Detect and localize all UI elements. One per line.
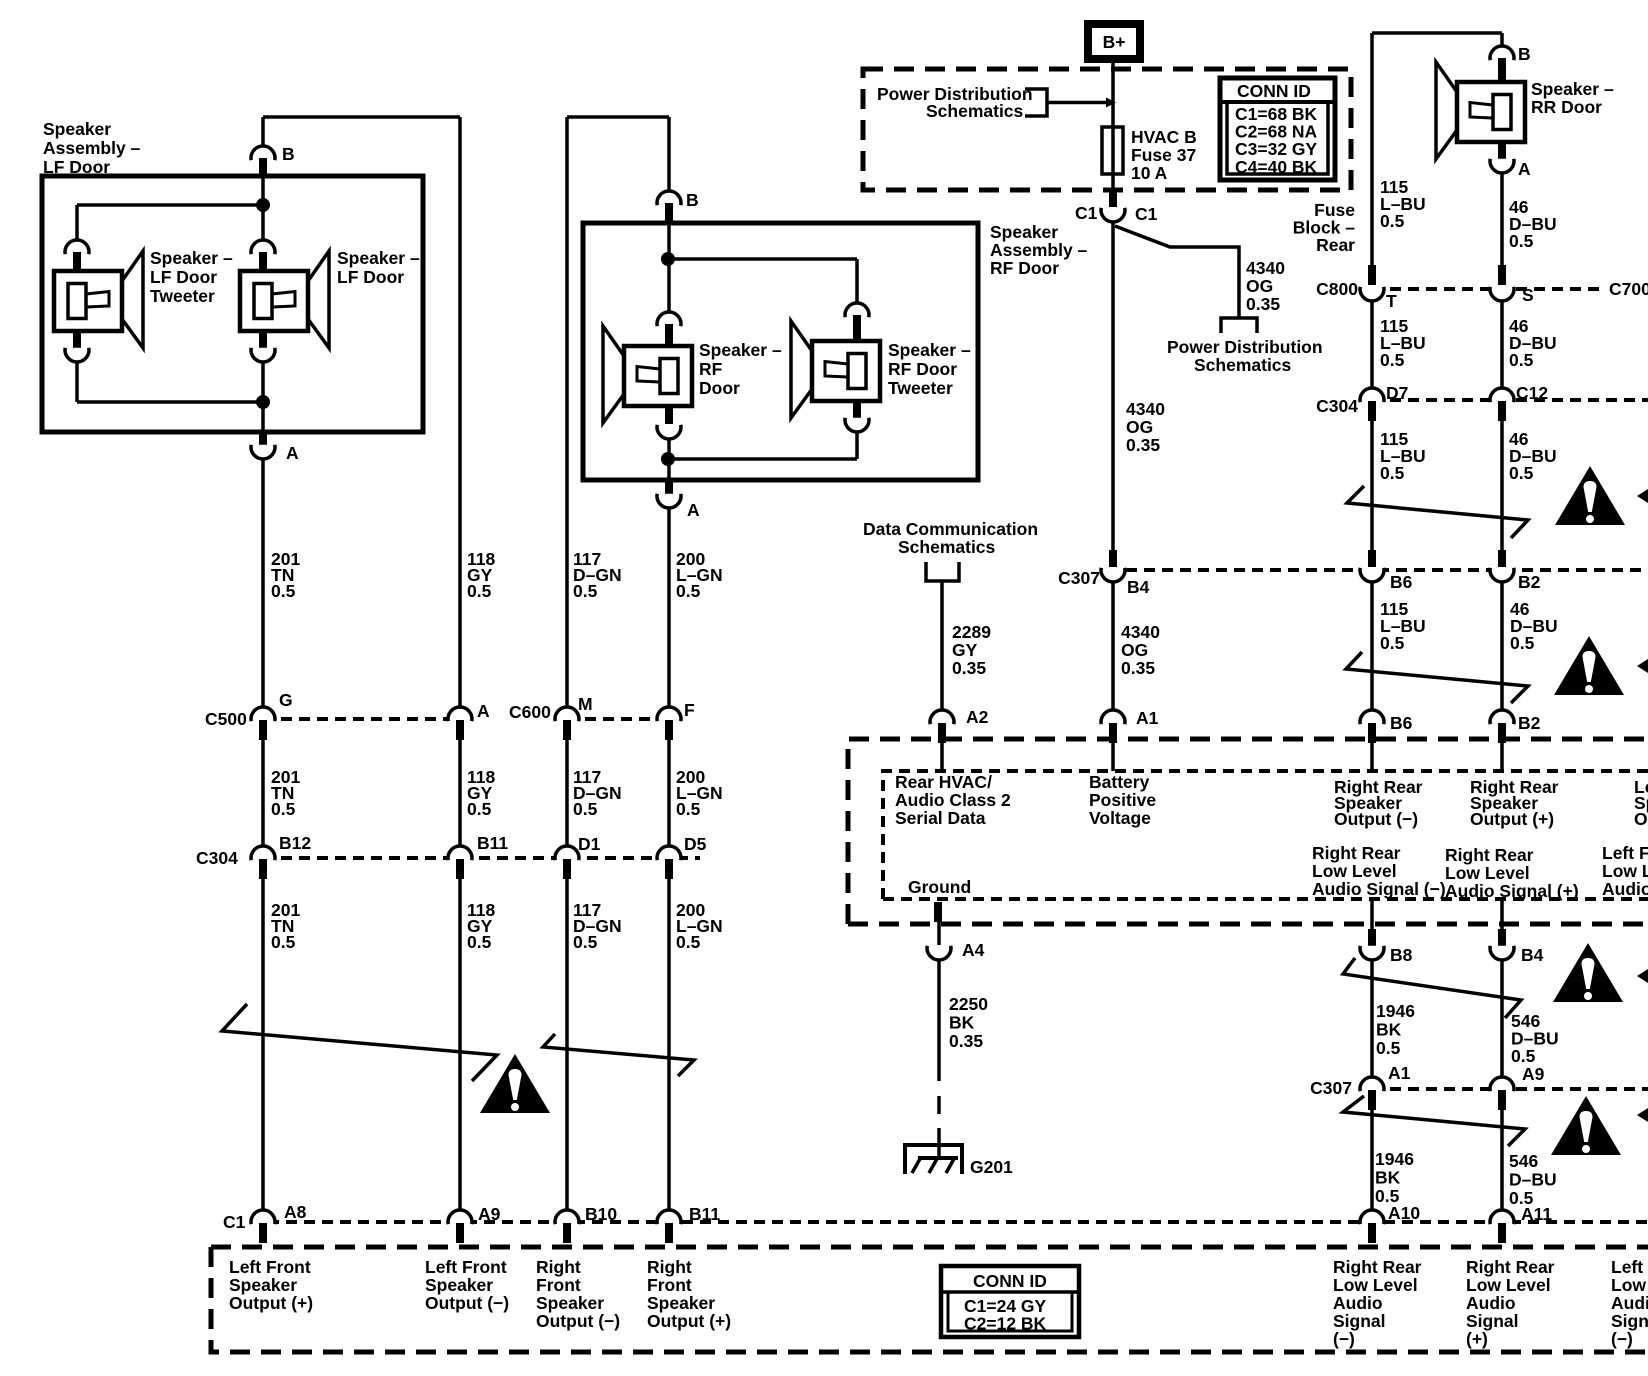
connector C800 pin T: [1360, 287, 1384, 301]
wire 201 TN segment C500 to C304: [261, 740, 265, 845]
svg-text:B6: B6: [1390, 572, 1413, 592]
wire 46 D-BU segment C800 to C304: [1500, 301, 1504, 387]
wire RF junction to A: [667, 459, 671, 480]
svg-text:A: A: [477, 701, 490, 721]
wire RR loop top: [1372, 31, 1502, 35]
svg-text:A9: A9: [478, 1204, 501, 1224]
wire LF loop top: [263, 115, 460, 119]
stub below A1: [1109, 723, 1117, 743]
wire 1946 BK segment B8 to C307: [1370, 960, 1374, 1077]
wire 118 GY segment top to C500: [458, 117, 462, 706]
svg-text:B: B: [282, 144, 295, 164]
ground G201 symbol: [905, 1145, 962, 1174]
stub out of LF tweeter: [73, 332, 81, 351]
svg-text:A1: A1: [1136, 708, 1159, 728]
wire 2289 GY segment to A2: [940, 581, 944, 710]
connector line C304 left: [263, 856, 700, 860]
wire B2 into module: [1500, 743, 1504, 771]
connector line C307 upper: [1126, 568, 1648, 572]
stub above C800 T: [1368, 265, 1376, 285]
wire 2250 BK dashed continuation: [937, 1096, 941, 1114]
twisted pair mark left front pair: [222, 1004, 497, 1081]
stub below C1 B11: [665, 1223, 673, 1243]
stub above A (LF): [259, 432, 267, 446]
svg-text:B11: B11: [477, 833, 508, 853]
wire module to B8: [1370, 899, 1374, 929]
twisted pair mark low level pair (1): [1343, 958, 1521, 1018]
connector A (RR speaker): [1490, 159, 1514, 173]
connector line C307 lower: [1372, 1087, 1648, 1091]
wire 115 L-BU segment C307 to module: [1370, 582, 1374, 710]
stub below A2: [938, 723, 946, 743]
wire branch from LF tweeter bottom: [77, 400, 263, 404]
svg-text:A: A: [687, 500, 700, 520]
wire 546 D-BU segment C307 to A11: [1500, 1110, 1504, 1210]
connector C1 pin A11: [1490, 1210, 1514, 1224]
warning triangle note (4): [1551, 1096, 1621, 1155]
wire RF speaker to lower junction: [667, 439, 671, 459]
svg-text:C1: C1: [1135, 204, 1158, 224]
connector line C500: [263, 717, 460, 721]
svg-text:CONN ID: CONN ID: [973, 1271, 1047, 1291]
twisted pair mark RR pair (1): [1347, 486, 1528, 538]
wire 2250 BK segment: [937, 960, 941, 1081]
wire 201 TN segment A to C500: [261, 459, 265, 706]
footnote arrow (3): [1637, 969, 1648, 983]
connector C600 pin M: [555, 707, 579, 721]
wire to RF B connector: [667, 117, 671, 190]
svg-text:Schematics: Schematics: [1194, 355, 1292, 375]
connector at LF speaker bottom: [251, 348, 275, 362]
svg-text:A: A: [286, 443, 299, 463]
svg-text:Schematics: Schematics: [926, 101, 1024, 121]
wire 4340 OG segment C1 to C307: [1111, 222, 1115, 550]
svg-text:C1: C1: [223, 1212, 246, 1232]
stub below C600 M: [563, 720, 571, 740]
svg-text:C1: C1: [1075, 203, 1098, 223]
footnote arrow (4): [1637, 1108, 1648, 1122]
warning triangle note (3): [1553, 943, 1623, 1002]
stub into LF speaker: [259, 252, 267, 271]
stub above RR A: [1498, 142, 1506, 160]
svg-text:A2: A2: [966, 707, 989, 727]
svg-text:G: G: [279, 690, 293, 710]
svg-text:C304: C304: [196, 848, 238, 868]
connector A (RF assembly): [657, 494, 681, 508]
wire RF tweeter drop: [855, 259, 859, 303]
stub below module B6: [1368, 723, 1376, 743]
stub above C307 B4: [1109, 550, 1117, 567]
wire RF main speaker top: [667, 259, 671, 312]
connector line C800: [1372, 287, 1600, 291]
connector at LF speaker top: [251, 240, 275, 254]
twisted pair mark low level pair (2): [1343, 1096, 1525, 1146]
stub below C1 A8: [259, 1223, 267, 1243]
connector line C600: [567, 717, 669, 721]
svg-text:C500: C500: [205, 709, 247, 729]
stub below C304 D1: [563, 859, 571, 879]
connector B (RR speaker): [1490, 46, 1514, 60]
wire 115 L-BU segment top: [1370, 33, 1374, 265]
svg-text:G201: G201: [970, 1157, 1013, 1177]
connector C307 pin B4: [1101, 568, 1125, 582]
svg-text:A1: A1: [1388, 1063, 1411, 1083]
connector C1 pin A8: [251, 1210, 275, 1224]
svg-text:B4: B4: [1127, 577, 1150, 597]
B+ battery feed box: [1084, 20, 1144, 63]
CONN ID table (fuse block rear): [1220, 78, 1335, 180]
wire 1946 BK segment C307 to A10: [1370, 1110, 1374, 1210]
connector C304 pin D7: [1360, 388, 1384, 402]
stub below C1 A11: [1498, 1223, 1506, 1243]
svg-text:CONN ID: CONN ID: [1237, 81, 1311, 101]
stub below B: [259, 158, 267, 178]
speaker RF door tweeter icon: [791, 321, 880, 418]
connector C800 pin S: [1490, 287, 1514, 301]
wire 115 L-BU segment C304 to C307: [1370, 421, 1374, 550]
connector C1 fuse block: [1101, 208, 1125, 222]
connector C500 pin G: [251, 707, 275, 721]
wire 118 GY segment C304 to C1: [458, 879, 462, 1210]
svg-text:C800: C800: [1316, 279, 1358, 299]
stub below C307 A9: [1498, 1090, 1506, 1110]
footnote arrow (1): [1637, 489, 1648, 503]
svg-text:C1=68 BKC2=68 NAC3=32 GYC4=40: C1=68 BKC2=68 NAC3=32 GYC4=40 BK: [1235, 104, 1318, 177]
stub below RF B: [665, 203, 673, 223]
radio dashed box (bottom): [211, 1247, 1648, 1352]
wire 117 D-GN segment top to C600: [565, 117, 569, 706]
svg-text:A10: A10: [1388, 1203, 1420, 1223]
svg-text:118GY0.5: 118GY0.5: [467, 549, 495, 601]
radio/amplifier inner dashed box: [883, 771, 1648, 899]
svg-text:Schematics: Schematics: [898, 537, 996, 557]
wire to RR speaker B: [1500, 33, 1504, 46]
connector B8 (module low level): [1360, 946, 1384, 960]
wire 2250 BK to ground: [937, 1128, 941, 1158]
svg-text:C12: C12: [1516, 383, 1548, 403]
twisted pair mark right front pair: [543, 1034, 694, 1076]
fuse HVAC B Fuse 37 10A: [1102, 127, 1123, 174]
svg-text:D7: D7: [1386, 383, 1408, 403]
connector B4 (module low level): [1490, 946, 1514, 960]
svg-text:C307: C307: [1310, 1078, 1352, 1098]
speaker LF door tweeter icon: [54, 251, 143, 348]
stub into RF tweeter: [853, 315, 861, 340]
connector A1 (module): [1101, 710, 1125, 724]
svg-text:C304: C304: [1316, 396, 1358, 416]
svg-text:B: B: [686, 190, 699, 210]
stub above C800 S: [1498, 265, 1506, 285]
svg-text:Power Distribution: Power Distribution: [1167, 337, 1323, 357]
connector at LF tweeter bottom: [65, 348, 89, 362]
wire inside RF box to junction: [667, 223, 671, 259]
junction node RF bottom: [661, 452, 675, 466]
connector C307 pin B6: [1360, 568, 1384, 582]
svg-text:A11: A11: [1521, 1204, 1552, 1224]
svg-text:B10: B10: [585, 1204, 617, 1224]
svg-text:C1=24 GYC2=12 BK: C1=24 GYC2=12 BK: [964, 1296, 1047, 1334]
svg-text:B6: B6: [1390, 713, 1413, 733]
connector at RF tweeter bottom: [845, 418, 869, 432]
stub below C307 A1: [1368, 1090, 1376, 1110]
wire 117 D-GN segment C304 to C1: [565, 879, 569, 1210]
svg-text:B4: B4: [1521, 945, 1544, 965]
wire A2 into module: [940, 743, 944, 771]
svg-text:D5: D5: [684, 834, 707, 854]
speaker LF door icon: [240, 251, 329, 348]
svg-text:118GY0.5: 118GY0.5: [467, 900, 495, 952]
connector C307 pin B2: [1490, 568, 1514, 582]
wire LF tweeter drop: [75, 205, 79, 240]
wire branch to LF tweeter top: [77, 203, 263, 207]
wire ground to A4: [937, 922, 941, 945]
connector line C304 right: [1372, 398, 1648, 402]
warning triangle note (front speakers): [480, 1054, 550, 1113]
stub out of RF speaker: [665, 406, 673, 424]
connector at RF speaker top: [657, 312, 681, 326]
wire LF speaker to lower junction: [261, 362, 265, 402]
svg-text:A8: A8: [284, 1202, 307, 1222]
stub above A (RF): [665, 480, 673, 495]
svg-text:Data Communication: Data Communication: [863, 519, 1038, 539]
connector B (RF assembly): [657, 191, 681, 205]
svg-text:Speaker –RR Door: Speaker –RR Door: [1531, 79, 1614, 117]
wire module to B4: [1500, 899, 1504, 929]
wire 546 D-BU segment B4 to C307: [1500, 960, 1504, 1077]
svg-text:F: F: [684, 700, 695, 720]
svg-text:118GY0.5: 118GY0.5: [467, 767, 495, 819]
connector C600 pin F: [657, 707, 681, 721]
connector C304 pin D1: [555, 846, 579, 860]
warning triangle note (2): [1554, 636, 1624, 695]
footnote arrow (2): [1637, 659, 1648, 673]
wire from bracket to B+ feed: [1047, 101, 1107, 105]
connector A (LF assembly): [251, 445, 275, 459]
connector C1 pin B10: [555, 1210, 579, 1224]
connector at LF tweeter top: [65, 240, 89, 254]
stub below C1 A9: [456, 1223, 464, 1243]
wire branch to power distribution reference: [1115, 226, 1239, 318]
wire B6 into module: [1370, 743, 1374, 771]
connector line C1 bottom: [250, 1220, 1648, 1224]
connector at RF tweeter top: [845, 303, 869, 317]
stub below C304 D7: [1368, 401, 1376, 421]
svg-text:B2: B2: [1518, 572, 1541, 592]
wire 46 D-BU segment C307 to module: [1500, 582, 1504, 710]
connector C307 pin A9: [1490, 1077, 1514, 1091]
arrowhead at B+ feed junction: [1106, 98, 1116, 108]
connector C304 pin C12: [1490, 388, 1514, 402]
svg-text:A9: A9: [1522, 1064, 1545, 1084]
svg-text:B: B: [1518, 44, 1531, 64]
wire 200 L-GN segment C600 to C304: [667, 740, 671, 845]
stub below C304 C12: [1498, 401, 1506, 421]
connector C304 pin D5: [657, 846, 681, 860]
connector C1 pin A10: [1360, 1210, 1384, 1224]
svg-text:C700: C700: [1609, 279, 1648, 299]
svg-text:B12: B12: [279, 833, 311, 853]
twisted pair mark RR pair (2): [1346, 652, 1528, 703]
wire A1 into module: [1111, 743, 1115, 771]
stub above B4: [1498, 929, 1506, 946]
svg-text:B+: B+: [1103, 32, 1126, 52]
stub below RR B: [1498, 58, 1506, 82]
stub below C1 A10: [1368, 1223, 1376, 1243]
svg-text:A4: A4: [962, 940, 985, 960]
wire inside LF box B to junction: [261, 178, 265, 205]
svg-text:S: S: [1522, 285, 1534, 305]
stub out of RF tweeter: [853, 401, 861, 419]
speaker RR door icon: [1436, 62, 1525, 159]
wire 4340 OG segment C307 to A1: [1111, 582, 1115, 710]
wire 200 L-GN segment A to C600: [667, 508, 671, 706]
stub below C500 A: [456, 720, 464, 740]
svg-text:Left FrontSpeakerOutput (−): Left FrontSpeakerOutput (−): [1634, 777, 1648, 829]
wire branch from RF tweeter bottom: [668, 457, 857, 461]
svg-text:Ground: Ground: [908, 877, 971, 897]
connector B2 (module): [1490, 710, 1514, 724]
wire branch to RF tweeter top: [668, 257, 857, 261]
junction node LF bottom: [256, 395, 270, 409]
wire 117 D-GN segment C600 to C304: [565, 740, 569, 845]
wire 200 L-GN segment C304 to C1: [667, 879, 671, 1210]
svg-text:A: A: [1518, 159, 1531, 179]
svg-text:Left FrontLow LevelAudio Sig: Left FrontLow LevelAudio Sig: [1602, 843, 1648, 899]
stub into RF speaker: [665, 324, 673, 346]
stub below C304 B11: [456, 859, 464, 879]
stub below C304 D5: [665, 859, 673, 879]
stub above C1 (fuse block): [1109, 190, 1117, 207]
wire RF loop top: [567, 115, 669, 119]
wire 201 TN top stub above B: [261, 117, 265, 146]
stub above C307 B2: [1498, 550, 1506, 567]
speaker assembly RF door box: [583, 223, 978, 480]
reference bracket to data communication: [926, 562, 959, 581]
stub out of LF speaker: [259, 332, 267, 351]
connector C307 pin A1: [1360, 1077, 1384, 1091]
svg-text:D1: D1: [578, 834, 601, 854]
wire B+ to fuse: [1111, 63, 1115, 198]
connector C304 pin B11: [448, 846, 472, 860]
speaker assembly LF door box: [42, 176, 423, 432]
connector B6 (module): [1360, 710, 1384, 724]
svg-text:B8: B8: [1390, 945, 1413, 965]
svg-text:BatteryPositiveVoltage: BatteryPositiveVoltage: [1089, 772, 1156, 828]
svg-text:B11: B11: [689, 1204, 720, 1224]
wire LF main speaker top: [261, 205, 265, 240]
stub below C600 F: [665, 720, 673, 740]
power distribution dashed box: [863, 69, 1351, 190]
svg-text:C307: C307: [1058, 568, 1100, 588]
connector C1 pin B11: [657, 1210, 681, 1224]
connector B (LF assembly): [251, 146, 275, 160]
connector C304 pin B12: [251, 846, 275, 860]
wire 46 D-BU segment C304 to C307: [1500, 421, 1504, 550]
svg-text:C600: C600: [509, 702, 551, 722]
svg-text:M: M: [578, 694, 593, 714]
stub below Ground pin: [934, 902, 942, 922]
speaker RF door icon: [603, 326, 692, 423]
connector at RF speaker bottom: [657, 425, 681, 439]
stub into LF tweeter: [73, 252, 81, 271]
connector A2 (module): [930, 710, 954, 724]
stub below C1 B10: [563, 1223, 571, 1243]
reference bracket to power distribution: [1025, 89, 1047, 116]
wire junction to A connector: [261, 402, 265, 432]
wire 201 TN segment C304 to C1: [261, 879, 265, 1210]
junction node RF top: [661, 252, 675, 266]
stub below module B2: [1498, 723, 1506, 743]
radio/amplifier outer dashed box: [848, 739, 1648, 924]
svg-text:B2: B2: [1518, 713, 1541, 733]
wire 46 D-BU segment A to C800: [1500, 173, 1504, 265]
CONN ID table (radio): [941, 1266, 1079, 1337]
warning triangle note (1): [1555, 466, 1625, 525]
junction node LF top: [256, 198, 270, 212]
connector A4 (module ground): [927, 946, 951, 960]
stub above B8: [1368, 929, 1376, 946]
connector C500 pin A: [448, 707, 472, 721]
wire 115 L-BU segment C800 to C304: [1370, 301, 1374, 387]
svg-text:T: T: [1386, 291, 1397, 311]
wire LF tweeter to lower junction: [75, 362, 79, 402]
stub above C307 B6: [1368, 550, 1376, 567]
stub below C304 B12: [259, 859, 267, 879]
connector C1 pin A9: [448, 1210, 472, 1224]
stub below C500 G: [259, 720, 267, 740]
wire 118 GY segment C500 to C304: [458, 740, 462, 845]
reference bracket to power distribution (lower): [1221, 318, 1257, 333]
wire RF tweeter to lower junction: [855, 432, 859, 459]
